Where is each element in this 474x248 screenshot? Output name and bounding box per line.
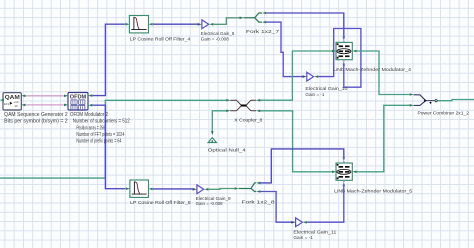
X coupler 8: [230, 100, 256, 111]
filter 5 input port arrow: [126, 187, 130, 190]
svg-text:Gain = -1: Gain = -1: [293, 235, 313, 241]
wire fork 7 top branch to MZM 4 top port: [266, 13, 344, 37]
svg-text:X Coupler_8: X Coupler_8: [234, 118, 262, 124]
fork 8 output port arrow 1: [256, 182, 260, 185]
svg-text:Electrical Gain_11: Electrical Gain_11: [293, 230, 336, 236]
gain 8 output port arrow: [209, 23, 213, 26]
X coupler input port arrow 1: [226, 99, 230, 102]
fork 1x2_7: [244, 13, 262, 22]
LiNb Mach-Zehnder modulator 4: [336, 42, 352, 59]
optical null 4 terminator: [208, 131, 216, 142]
wire gain 10 looped to MZM 4 bottom port: [318, 29, 361, 88]
wire QAM to OFDM upper (M-ary): [26, 95, 64, 97]
wire MZM 5 output to power combiner input 2: [357, 105, 410, 172]
wire OFDM out2 down to LP filter 5: [92, 105, 125, 189]
svg-text:Fork 1x2_8: Fork 1x2_8: [242, 200, 275, 206]
OFDM output port arrow 2: [88, 104, 92, 107]
wire filter 5 to gain 9: [153, 188, 193, 190]
LP cosine roll off filter 4 box: [129, 16, 148, 33]
gain 10 output port arrow: [314, 75, 318, 78]
svg-text:Electrical Gain_9: Electrical Gain_9: [196, 196, 231, 202]
svg-text:Gain = -0.008: Gain = -0.008: [201, 36, 229, 42]
svg-text:OFDM Modulator 2: OFDM Modulator 2: [70, 112, 108, 118]
gain 10 input port arrow: [303, 75, 307, 78]
svg-text:LiNb Mach-Zehnder Modulator_5: LiNb Mach-Zehnder Modulator_5: [334, 188, 412, 194]
QAM left port arrow: [0, 99, 4, 102]
svg-text:QAM Sequence Generator 2: QAM Sequence Generator 2: [4, 112, 68, 118]
MZM 4 top port node: [343, 40, 345, 42]
OFDM input port arrow 1: [64, 95, 68, 98]
fork 8 input port arrow: [235, 187, 239, 190]
MZM 4 optical input port arrow: [332, 50, 336, 53]
gain 9 output port arrow: [204, 188, 208, 191]
wire LP filter 4 to gain 8: [153, 23, 198, 25]
gain 8 input port arrow: [198, 23, 202, 26]
fork 1x2_8: [239, 183, 257, 192]
svg-text:Power Combiner 2x1_2: Power Combiner 2x1_2: [418, 110, 470, 116]
power combiner input port arrow 2: [410, 104, 414, 107]
wire power combiner output to edge: [437, 100, 474, 101]
svg-text:Fork 1x2_7: Fork 1x2_7: [246, 29, 279, 35]
QAM sequence generator box: [3, 93, 21, 110]
svg-text:Gain = -0.008: Gain = -0.008: [196, 201, 223, 207]
wire fork 7 bottom branch to gain 10: [266, 22, 302, 77]
wire gain 9 to fork 8: [209, 188, 235, 191]
svg-text:Electrical Gain_10: Electrical Gain_10: [305, 86, 347, 92]
svg-text:101: 101: [4, 102, 9, 106]
X coupler output port arrow 1: [256, 99, 260, 102]
wire optical source to X coupler input 1: [105, 99, 226, 101]
gain 11 input port arrow: [291, 221, 295, 224]
wire gain 11 to MZM 5 bottom port: [307, 186, 344, 222]
svg-text:LiNb Mach-Zehnder Modulator_4: LiNb Mach-Zehnder Modulator_4: [333, 67, 411, 73]
gain 11 output port arrow: [303, 221, 307, 224]
fork 7 input port arrow: [240, 17, 244, 20]
wire X coupler out 1 to MZM 4 optical input: [261, 51, 332, 100]
svg-text:LP Cosine Roll Off Filter_5: LP Cosine Roll Off Filter_5: [130, 200, 191, 206]
power combiner input port arrow 1: [410, 93, 414, 96]
electrical gain 9 triangle: [197, 185, 204, 194]
svg-text:Electrical Gain_8: Electrical Gain_8: [201, 31, 235, 37]
filter 5 output port arrow: [149, 188, 153, 191]
filter 4 output port arrow: [149, 23, 153, 26]
wire gain 8 to fork 7: [214, 18, 240, 25]
electrical gain 8 triangle: [202, 20, 209, 29]
OFDM modulator box: [68, 93, 88, 111]
wire MZM 4 output to power combiner input 1: [357, 51, 410, 95]
svg-text:Number of FFT points = 1024: Number of FFT points = 1024: [76, 132, 124, 138]
svg-text:Bits per symbol (b/sym) = 2: Bits per symbol (b/sym) = 2: [4, 119, 68, 125]
svg-text:10: 10: [14, 104, 18, 108]
MZM 5 bottom port node: [343, 180, 345, 182]
MZM 5 top port node: [343, 161, 345, 163]
fork 8 output port arrow 2: [256, 190, 260, 193]
svg-text:Number of prefix points = 64: Number of prefix points = 64: [76, 139, 121, 145]
wire optical feed from left edge up to X coupler (under trunk): [0, 100, 105, 178]
svg-text:Gain = -1: Gain = -1: [305, 92, 324, 98]
gain 9 input port arrow: [193, 188, 197, 191]
electrical gain 11 triangle: [296, 218, 303, 227]
MZM 5 optical output port arrow: [352, 171, 356, 174]
wire fork 8 bottom branch to gain 11: [260, 192, 292, 223]
MZM 4 bottom port node: [343, 60, 345, 62]
wire QAM to OFDM lower (M-ary): [26, 104, 64, 106]
filter 4 input port arrow: [125, 23, 129, 26]
fork 7 output port arrow 2: [262, 21, 266, 24]
LP cosine roll off filter 5 box: [130, 180, 149, 197]
svg-text:Position array = 256: Position array = 256: [76, 125, 105, 131]
X coupler input port arrow 2: [226, 110, 230, 113]
svg-text:Number of subcarriers = 512: Number of subcarriers = 512: [73, 119, 130, 125]
MZM 4 top port arrow: [343, 37, 346, 41]
OFDM output port arrow 1: [88, 94, 92, 97]
svg-text:LP Cosine Roll Off Filter_4: LP Cosine Roll Off Filter_4: [130, 36, 191, 42]
MZM 4 bottom port arrow: [343, 61, 346, 65]
X coupler output port arrow 2: [256, 110, 260, 113]
electrical gain 10 triangle: [307, 72, 314, 81]
wire optical null to X coupler input 2: [212, 111, 226, 132]
wire fork 8 top branch to MZM 5 top port: [260, 149, 344, 183]
power combiner 2x1_2: [414, 95, 438, 106]
QAM output port arrow 2: [21, 104, 25, 107]
wire X coupler out 2 to MZM 5 optical input: [261, 111, 332, 172]
MZM 5 top port arrow: [343, 157, 346, 161]
fork 7 output port arrow 1: [262, 12, 266, 15]
MZM 5 bottom port arrow: [343, 182, 346, 186]
MZM 4 optical output port arrow: [352, 50, 356, 53]
OFDM input port arrow 2: [64, 104, 68, 107]
QAM output port arrow 1: [21, 95, 25, 98]
svg-text:Optical Null_4: Optical Null_4: [208, 148, 246, 154]
LiNb Mach-Zehnder modulator 5: [336, 163, 352, 180]
MZM 5 optical input port arrow: [332, 171, 336, 174]
wire OFDM out1 up to LP filter 4: [92, 24, 125, 95]
